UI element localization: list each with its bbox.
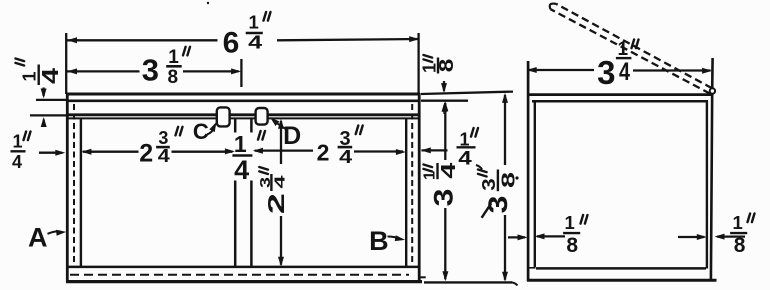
svg-text:B: B (369, 226, 389, 256)
svg-text:C: C (193, 119, 209, 144)
svg-text:2: 2 (263, 193, 289, 214)
svg-text:2: 2 (317, 139, 330, 165)
svg-text:4: 4 (12, 152, 22, 172)
svg-text:8: 8 (497, 172, 518, 188)
svg-text:D: D (283, 122, 301, 150)
svg-text:1: 1 (618, 39, 629, 60)
svg-text:3: 3 (597, 54, 615, 91)
svg-text:4: 4 (339, 147, 352, 167)
svg-text:1: 1 (565, 212, 575, 233)
svg-text:8: 8 (566, 234, 578, 257)
svg-text:1: 1 (249, 12, 259, 33)
svg-text:1: 1 (422, 171, 439, 180)
svg-text:3: 3 (478, 178, 499, 191)
svg-text:1: 1 (12, 132, 22, 152)
svg-text:8: 8 (436, 59, 458, 73)
svg-text:1: 1 (733, 212, 743, 233)
svg-text:8: 8 (168, 67, 179, 88)
svg-text:6: 6 (223, 26, 240, 59)
svg-text:3: 3 (158, 128, 168, 148)
svg-text:4: 4 (438, 161, 460, 178)
svg-text:4: 4 (37, 68, 63, 84)
svg-text:4: 4 (271, 174, 288, 188)
svg-text:3: 3 (429, 189, 459, 207)
svg-text:4: 4 (158, 146, 170, 166)
svg-text:A: A (28, 222, 48, 252)
svg-text:4: 4 (248, 33, 262, 53)
svg-text:4: 4 (234, 155, 249, 185)
svg-text:4: 4 (458, 147, 472, 169)
svg-text:8: 8 (734, 234, 746, 257)
svg-text:1: 1 (234, 131, 247, 157)
svg-text:2: 2 (139, 139, 153, 167)
svg-text:3: 3 (142, 53, 159, 88)
svg-text:4: 4 (619, 58, 630, 86)
